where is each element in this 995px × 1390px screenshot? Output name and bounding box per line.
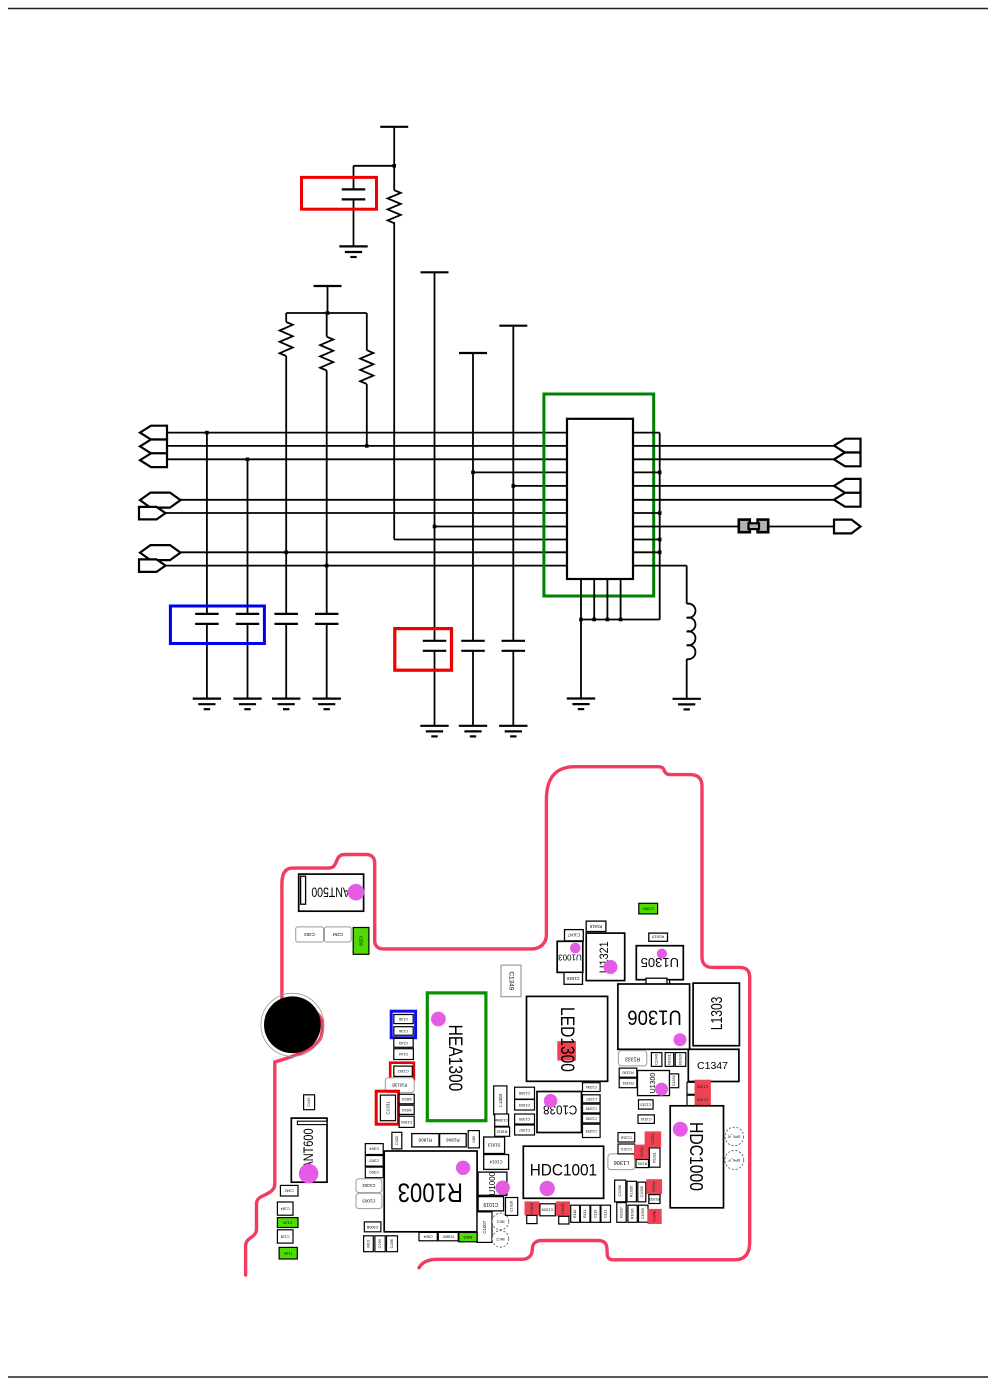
svg-text:ANT500: ANT500 [311,884,350,900]
svg-text:C1296: C1296 [586,1117,597,1121]
capacitor C3 [274,613,298,615]
C1002 (gray outline) [356,1179,382,1193]
svg-text:HDC1000: HDC1000 [686,1122,708,1191]
capacitor C1340 [651,1053,662,1067]
capacitor C402 [392,1132,402,1149]
capacitor C188 [387,1236,398,1252]
svg-text:C1903: C1903 [519,1103,530,1107]
svg-text:C1342: C1342 [397,1069,408,1073]
R1333 (gray outline) [618,1051,646,1066]
wire vertical net [659,433,661,620]
wire [247,624,249,699]
svg-text:C1304: C1304 [401,1120,412,1124]
part T100 (green) [279,1247,297,1259]
capacitor C1296 [583,1114,601,1123]
svg-text:MIC2: MIC2 [496,1237,504,1241]
svg-text:HEA1300: HEA1300 [445,1025,467,1092]
capacitor C5 (boxed) [423,640,447,642]
svg-text:C300B: C300B [366,1225,378,1229]
capacitor C1342 [394,1066,413,1076]
svg-text:C1299: C1299 [586,1107,597,1111]
capacitor C6 [461,640,485,642]
wire pin11 to L1 [633,565,687,567]
wire [393,222,395,539]
antenna ANT600 [291,1118,327,1182]
junction [658,471,662,475]
IC U1000 [478,1172,507,1195]
pad C1025 [559,1216,569,1224]
blue highlight box around C1 C2 [170,606,264,644]
capacitor C-A (boxed) [342,188,366,190]
microphone MIC2 [492,1231,509,1248]
svg-text:C1331: C1331 [385,1101,390,1115]
wire [434,272,436,641]
junction on bus8 [433,525,437,529]
svg-text:C1293: C1293 [586,1129,597,1133]
svg-text:R1036: R1036 [631,1209,635,1220]
wire pin5 to port [633,485,835,487]
test point U1321 (magenta dot) [604,960,618,974]
svg-text:C1028: C1028 [510,1201,514,1212]
test point C1038 (magenta dot) [544,1094,558,1108]
resistor R1033 [649,1195,660,1204]
capacitor C1302 (red) [634,1145,650,1160]
svg-text:C254: C254 [332,932,343,937]
resistor R1808 [412,1134,439,1147]
svg-text:C1340: C1340 [655,1054,659,1065]
capacitor C1318 [618,1133,635,1142]
svg-text:C1003: C1003 [362,1198,375,1203]
capacitor C1048 [564,972,583,984]
wire [354,165,395,167]
svg-text:L1306: L1306 [614,1159,629,1165]
microphone MIC1 [492,1213,509,1230]
svg-text:R1620: R1620 [679,1054,683,1065]
wire [472,651,474,726]
svg-text:R1613B: R1613B [392,1083,407,1088]
test point ANT500 (magenta dot) [348,884,365,901]
test point U1003 (magenta dot) [570,943,581,954]
IC U1 [567,419,633,579]
svg-text:C1034: C1034 [652,1181,656,1192]
svg-text:R1331: R1331 [622,1081,633,1085]
capacitor C1310 [638,1115,654,1124]
wire [326,313,328,337]
IC U1003 [557,941,583,972]
capacitor C143 [394,1038,413,1047]
wire bus to pin8 [435,526,568,528]
junction bus3/capC2 [246,458,250,462]
capacitors C1305/C1306 (red highlight) [695,1080,711,1107]
wire drop C2 [247,459,249,614]
wire [285,356,287,614]
capacitor C1313 [618,1144,635,1154]
resistor R1331 [619,1078,637,1088]
svg-text:T100: T100 [284,1251,293,1255]
svg-text:C1294: C1294 [586,1085,597,1089]
svg-text:C138: C138 [399,1017,408,1021]
svg-text:C188: C188 [390,1239,394,1248]
capacitor C1349 [501,965,521,997]
resistor R2 [320,337,333,371]
junction [658,538,662,542]
capacitor C111 [601,1205,611,1222]
capacitor C1039 [639,1205,649,1222]
capacitor C1034 (red) [646,1179,662,1194]
wire bus6 [181,499,568,501]
capacitor C1315 [639,1100,654,1109]
wire pin1 right [633,432,660,434]
mounting hole (black) [264,996,321,1053]
svg-text:C1014: C1014 [489,1160,502,1165]
capacitor C1014 [484,1155,509,1170]
svg-text:R1035: R1035 [630,1186,634,1197]
svg-text:C1305: C1305 [697,1085,708,1089]
test point ANT600 (magenta dot) [299,1164,319,1184]
pad C1026 [527,1215,537,1223]
capacitor C2 [236,613,260,615]
wire [326,371,328,614]
svg-text:R1330: R1330 [622,1071,633,1075]
ground [673,698,701,700]
R1613B (gray outline) [385,1078,414,1093]
capacitor C4 [315,613,339,615]
capacitor C1294 [583,1083,601,1092]
capacitor C1019 [478,1197,504,1211]
svg-text:C111: C111 [604,1210,608,1218]
resistor R1036 [628,1205,637,1222]
resistor R110 [571,1205,580,1222]
svg-text:SPK_P: SPK_P [728,1158,741,1162]
IC U1305 [636,946,683,980]
LED LED1300 body [527,996,608,1081]
svg-text:C1302: C1302 [640,1147,644,1158]
C254 (gray outline) [324,927,351,942]
resistor R1330 [619,1068,637,1077]
svg-text:C1019: C1019 [483,1201,498,1207]
capacitor C184 [277,1202,293,1215]
capacitor C250 (green) [353,928,369,955]
wire pin2 to port [633,445,835,447]
svg-text:C402: C402 [395,1136,399,1145]
capacitor C1347 [688,1049,739,1081]
IC U1321 [586,933,625,981]
page bottom rule [8,1376,988,1378]
junction [606,618,610,622]
svg-text:C1306: C1306 [697,1098,708,1102]
port O5 arrow [834,520,861,534]
svg-text:C304: C304 [369,1147,379,1152]
svg-text:U1003: U1003 [558,952,582,961]
capacitor C1309 [515,1114,535,1124]
svg-text:C1350: C1350 [643,907,654,911]
svg-text:ANT600: ANT600 [301,1128,317,1168]
port IN1 arrow [140,426,167,440]
ground [339,245,367,247]
capacitor C1308 [515,1087,535,1099]
svg-text:R1311: R1311 [653,1152,657,1162]
capacitor C304 [365,1144,383,1155]
jumper link [749,523,760,529]
resistor R1301 [636,1160,649,1168]
test point U1306 (magenta dot) [674,1033,687,1046]
svg-text:C1310: C1310 [641,1117,652,1121]
svg-text:C190: C190 [378,1239,382,1248]
resistor R3 [360,350,373,384]
resistor R-A [388,190,401,223]
svg-text:MIC1: MIC1 [496,1220,504,1224]
part S1913 [484,1137,505,1154]
C253 (gray outline) [296,927,324,942]
capacitor C1036 [615,1180,626,1202]
page top rule [8,8,988,10]
connector HEA1300 (green box) [427,993,486,1121]
svg-text:C302B: C302B [530,1202,534,1214]
L1306 (gray outline) [608,1154,635,1170]
svg-text:R1333: R1333 [625,1055,640,1061]
svg-text:C1029: C1029 [541,1207,554,1212]
svg-text:C1047: C1047 [567,933,580,938]
speaker pad SPK_P [725,1151,744,1170]
jumper pad 1 [739,520,750,533]
inductor L1297 [583,1095,601,1103]
svg-text:C1039: C1039 [641,1208,645,1219]
svg-text:R1800: R1800 [443,1235,454,1239]
svg-text:R1615: R1615 [651,935,664,940]
part M014 [399,1105,414,1114]
wire [393,127,395,190]
svg-text:R1033: R1033 [649,1197,660,1201]
svg-text:B403: B403 [463,1235,472,1239]
wire pin4 stub [633,471,660,473]
port OUT2 arrow [139,559,166,572]
test point HEA1300 (magenta dot) [431,1012,446,1027]
C1003 (gray outline) [356,1193,382,1208]
svg-text:C80: C80 [472,1136,476,1143]
PCB board outline [246,767,750,1275]
svg-text:C143: C143 [399,1041,408,1045]
IC U1306 [618,984,690,1049]
svg-text:C303B: C303B [561,1203,565,1215]
green highlight box around U1 [544,394,654,596]
port OUT1 arrow [139,507,166,520]
capacitor C118 [277,1230,293,1243]
capacitor C110 [591,1205,601,1222]
capacitor C1299 [583,1104,601,1113]
capacitor C1007 [477,1212,492,1243]
svg-text:R1808: R1808 [418,1138,432,1143]
capacitor C190 [375,1236,385,1252]
antenna ANT500 [299,874,364,911]
port O1 arrow [834,439,861,453]
capacitor C1024 (red) [648,1209,662,1224]
U1306 tab [646,978,667,984]
red highlight box (C1342) [390,1063,414,1080]
junction on bus2 [365,444,369,448]
wire IC bottom pin 3 [606,579,608,620]
wire [686,566,688,604]
power bar VCC2 [314,285,342,287]
part B403 (green) [459,1232,477,1241]
ANT500 feed bracket [301,876,306,904]
svg-text:C1313: C1313 [621,1147,632,1151]
wire bus1 [167,432,567,434]
svg-text:C1349: C1349 [508,971,515,991]
svg-text:LED1300: LED1300 [557,1007,579,1072]
capacitor C305 [365,1156,383,1167]
wire IC bottom pin 1 [580,579,582,620]
svg-text:C1347: C1347 [697,1060,728,1072]
wire [285,624,287,699]
port BID2 arrow [140,545,181,560]
capacitor C1 [195,613,219,615]
capacitor C1333 [670,1074,679,1088]
capacitor C1026 (red) [525,1201,540,1215]
resistor R1615 [649,933,668,941]
capacitor C440 [304,1095,315,1110]
resistor R1621 [665,1053,674,1067]
junction on bus5 [512,484,516,488]
wire [286,312,367,314]
power bar VCC5 [499,325,527,327]
wire [580,620,582,699]
svg-text:L1297: L1297 [586,1097,597,1101]
wire bus10 [181,551,568,553]
svg-text:M013: M013 [402,1097,412,1101]
resistor R1800 [438,1232,458,1240]
svg-text:R1301: R1301 [637,1162,647,1166]
resistor R1311 [649,1148,660,1167]
resistor R1 [280,322,293,356]
svg-text:R111: R111 [583,1210,587,1218]
capacitor C138 [394,1015,413,1024]
capacitor C1350 (green) [639,903,658,914]
wire [326,624,328,699]
test point U1305 (magenta dot) [657,949,667,959]
svg-text:R1621: R1621 [668,1054,672,1065]
junction bus1/capC1 [205,431,209,435]
jumper pad 2 [758,520,769,533]
wire [512,651,514,726]
ground [499,725,527,727]
capacitor C1303 (red) [645,1131,662,1147]
IC HDC1001 body [523,1146,603,1198]
port O4 arrow [834,493,861,507]
IC HDC1000 body [670,1106,723,1208]
capacitor C300 [365,1167,383,1178]
pad C1306 [687,1095,696,1107]
svg-text:C118: C118 [281,1235,290,1239]
svg-text:SPK_N: SPK_N [728,1135,741,1139]
wire IC bottom pin 4 [620,579,622,620]
ground [272,697,300,699]
test point HDC1000 (magenta dot) [673,1122,688,1137]
capacitor C1307 [515,1125,535,1135]
capacitor C300B [364,1222,381,1232]
svg-text:C1308: C1308 [519,1091,530,1095]
svg-text:C250: C250 [359,936,364,947]
wire [206,624,208,699]
power bar VCC4 [459,352,487,354]
svg-text:C1309: C1309 [519,1117,530,1121]
capacitor C1028 [506,1198,518,1216]
junction [658,511,662,515]
test point U1000 (magenta dot) [495,1181,509,1195]
svg-text:C300: C300 [369,1170,379,1175]
wire pin10 stub [633,551,660,553]
red highlight box around C-A [302,177,377,209]
capacitor C7 [502,640,526,642]
svg-text:C136: C136 [399,1029,408,1033]
svg-text:C184: C184 [281,1207,290,1211]
wire drop C1 [206,433,208,614]
resistor R1035 [627,1181,636,1202]
junction [592,618,596,622]
svg-text:M10: M10 [367,1240,371,1247]
inductor L1304 [494,1086,507,1115]
svg-text:C1307: C1307 [519,1128,530,1132]
ground [313,697,341,699]
ground [459,725,487,727]
test point HDC1001 (magenta dot) [540,1181,555,1196]
svg-text:R1003: R1003 [398,1177,463,1207]
wire IC bottom pin 2 [593,579,595,620]
resistor R1619 [586,921,606,931]
ground [233,697,261,699]
wire [434,651,436,726]
capacitor C1306b [495,1114,509,1126]
resistor R111 [580,1205,590,1222]
resistor network R1003 [384,1151,477,1232]
svg-text:C1002: C1002 [362,1183,375,1188]
svg-text:C1318: C1318 [621,1135,632,1139]
svg-text:C253: C253 [304,932,315,937]
resistor R1037 [617,1203,626,1223]
capacitor C804 [419,1232,437,1240]
port IN2 arrow [140,440,167,454]
svg-text:S1913: S1913 [487,1143,500,1148]
wire [472,353,474,641]
capacitor C342 [280,1185,298,1196]
svg-text:R1037: R1037 [620,1207,624,1218]
wire bus7 [166,512,568,514]
svg-text:C440: C440 [307,1098,311,1107]
svg-text:C1303: C1303 [651,1134,655,1145]
wire bus to pin9 [394,539,567,541]
power bar VCC1 [380,126,408,128]
wire pin8 to jumper [633,526,739,528]
junction [658,551,662,555]
capacitor C1331 [380,1095,395,1121]
svg-text:C1036: C1036 [618,1185,622,1196]
capacitor C1304 [399,1116,414,1127]
capacitor C1029 [540,1204,555,1216]
wire pin3 to port [633,458,835,460]
wire bottom net [581,619,660,621]
LED1300 highlight (red) [557,1041,576,1060]
svg-text:HDC1001: HDC1001 [530,1162,597,1180]
junction on bus10 [284,551,288,555]
capacitor C1038 [537,1092,582,1133]
capacitor C120 (green) [277,1218,298,1228]
capacitor C1903 [515,1100,535,1111]
wire bus11 [166,565,568,567]
svg-text:C1007: C1007 [482,1220,487,1233]
wire [353,166,355,190]
svg-text:C1048: C1048 [566,976,579,981]
resistor R1806 [440,1134,467,1147]
svg-text:U1000: U1000 [488,1171,497,1195]
